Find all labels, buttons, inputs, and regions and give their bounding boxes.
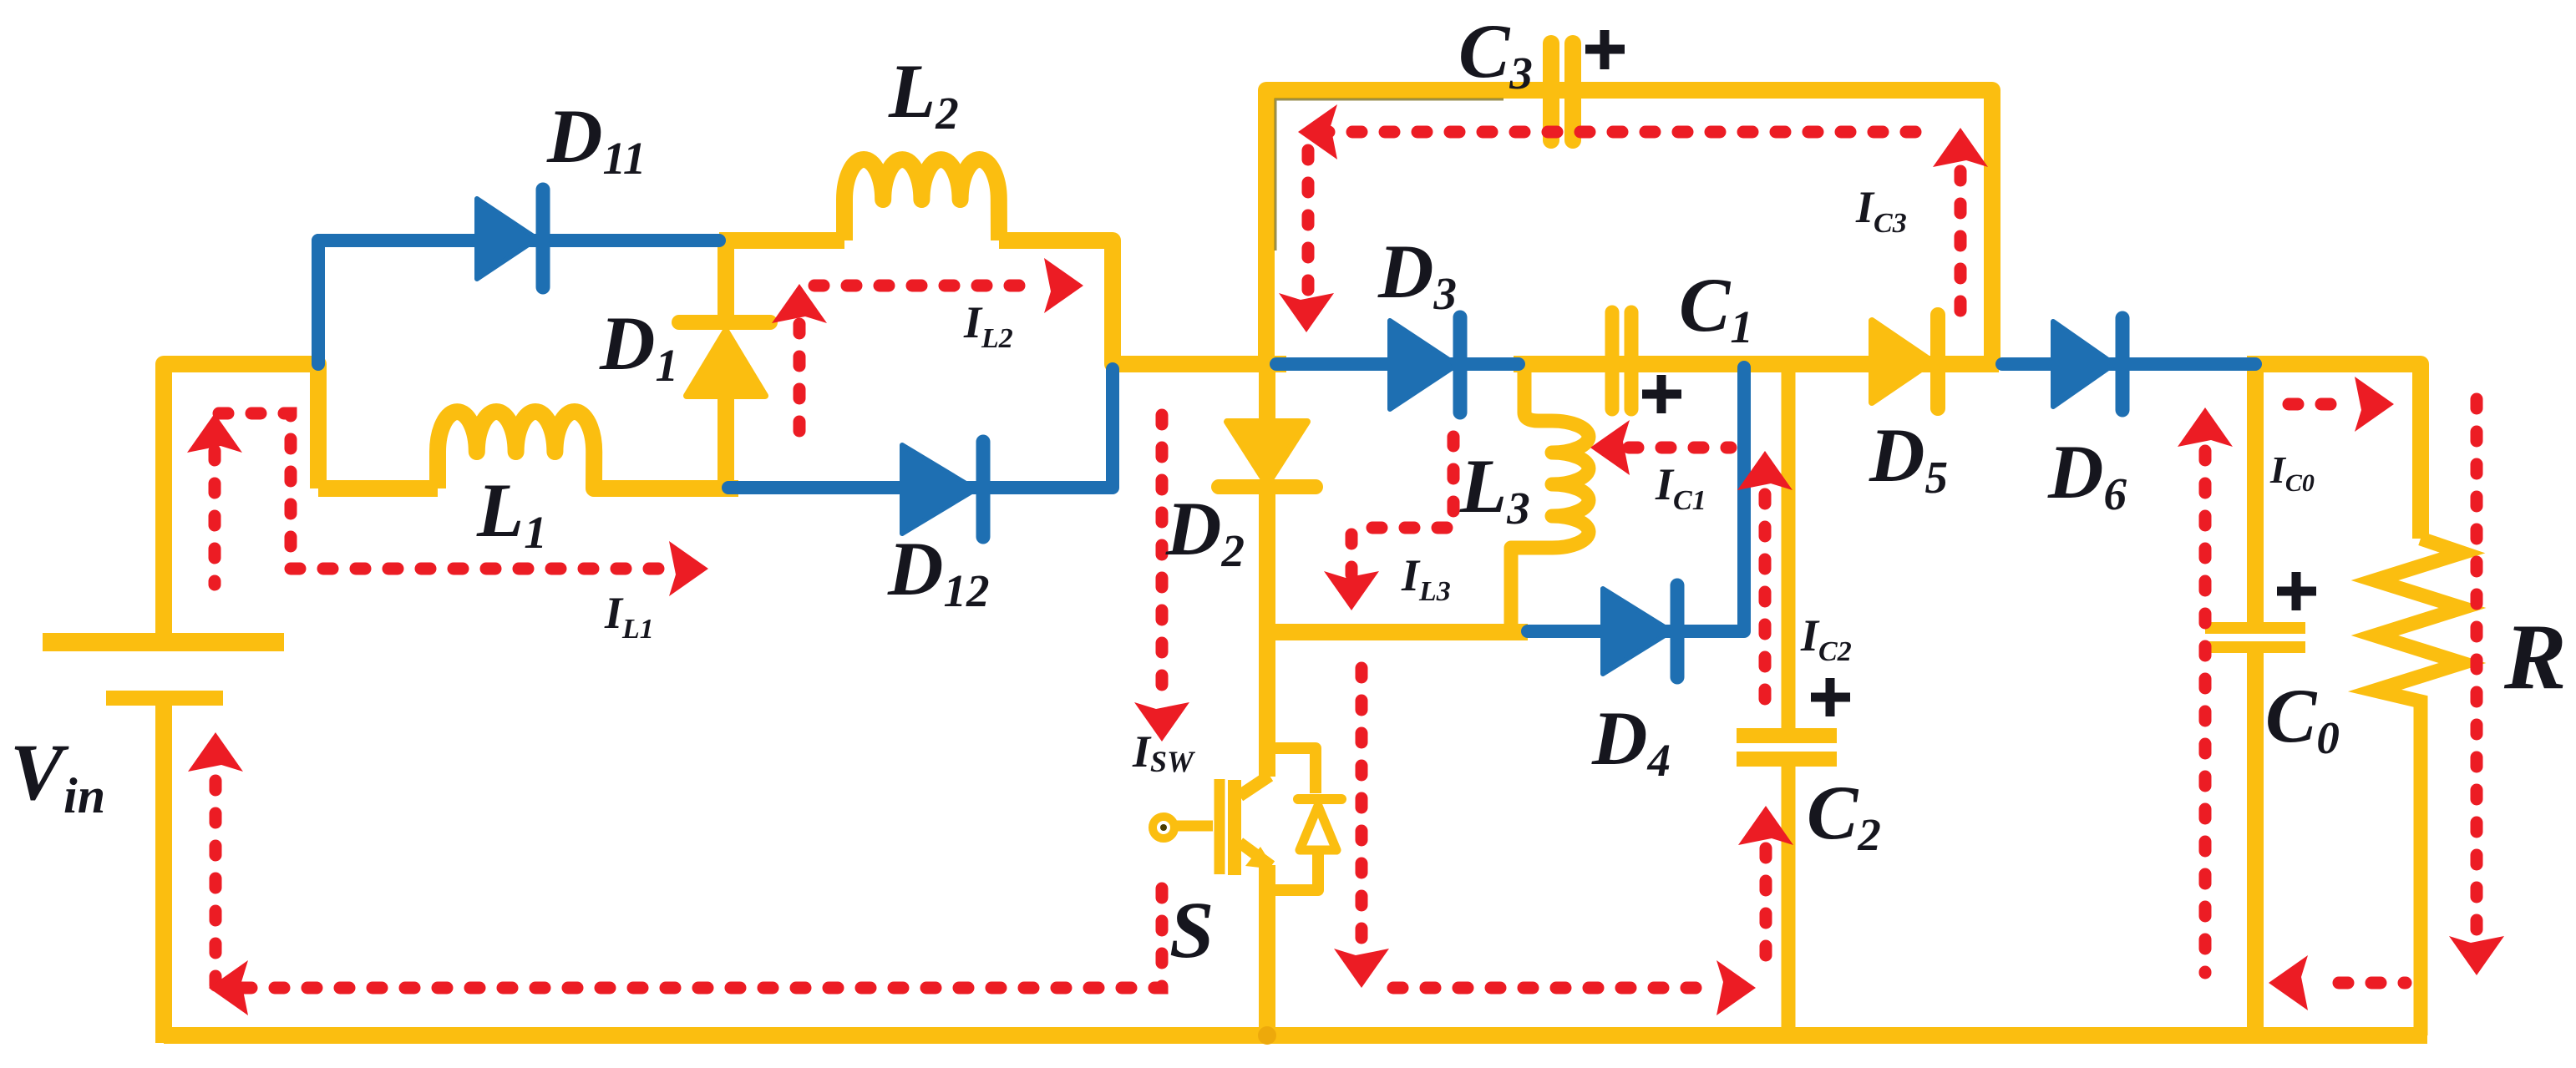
current R dashed [2471,399,2483,931]
diode D12 bar [976,442,991,537]
current Isw dashed upper [1156,415,1169,706]
wire output node [2247,364,2421,539]
current arrow battery top dashed [209,451,221,585]
diode D5 triangle [1872,321,1932,402]
diode D1 stem lower [718,392,734,488]
diode D3 line [1276,357,1519,371]
diode D11 triangle [477,199,537,279]
diode D6 bar [2116,318,2130,410]
diode D6 triangle [2053,321,2114,407]
wire L1 lead left [318,480,438,497]
capacitor C2 plate bottom [1737,752,1837,767]
current output top dashed [2289,398,2345,411]
current R down arrow head [2449,936,2504,975]
current Isw arrow head [1134,702,1189,742]
diode D5 bar [1930,315,1945,408]
current IL1 arrow head [669,541,708,596]
svg-text:R: R [2503,605,2567,709]
transistor S gate terminal circle [1153,817,1174,838]
current IL3 dashed [1351,437,1453,574]
current IL2 vertical dashed [794,324,806,451]
diode D12 triangle [902,445,976,534]
capacitor C1 bar right [1625,312,1639,409]
capacitor C0 plate bottom [2205,641,2305,653]
wire L2 right down to main line [999,240,1286,364]
svg-text:S: S [1169,885,1214,974]
diode D11 bar [536,190,550,287]
inductor L1 [438,412,738,488]
wire blue top-left vertical [312,240,325,364]
inductor L3 [1511,364,1589,632]
current bottom left dashed [242,887,1162,988]
current hook top dashed [219,413,291,569]
current IC3 up arrow head [1933,128,1988,167]
plus sign C0 [2277,572,2316,610]
current IL3 down arrow head [1324,571,1379,610]
wire C3 branch [1266,90,1992,364]
current IC2 right arrow head [1716,960,1756,1015]
current IC2 upper up arrow head [1737,451,1793,490]
transistor S freewheel diode bar [1298,794,1341,804]
hairline artifact inner corner C3 branch [1275,99,1504,251]
transistor S gate lead [1174,821,1213,832]
wire D2 to switch node [1267,494,1528,632]
transistor S body bar [1228,780,1241,875]
diode D12 line [728,369,1113,488]
current arrow battery lower dashed [210,781,222,985]
current IC1 dashed [1629,442,1731,454]
diode D4 bar [1671,585,1685,677]
current IC2 lower up arrow head [1738,806,1793,845]
current output bottom dashed [2339,977,2406,990]
current switch loop down arrow head [1334,949,1389,988]
diode D2 triangle [1227,422,1307,484]
wire C2 branch lower [1782,766,1796,1035]
wire bottom rail [164,1027,2427,1044]
current IC3 right leg dashed [1955,171,1967,321]
transistor S gate dot [1160,824,1167,831]
current IC3 left arrow head [1298,104,1337,159]
plus sign C1 [1642,375,1681,413]
transistor S freewheel diode triangle [1300,806,1336,850]
transistor S freewheel diode loop wire [1267,748,1318,890]
diode D4 triangle [1603,589,1671,674]
wire main line D3 to D5 [1514,356,1999,372]
current IC1 left arrow head [1590,420,1630,475]
transistor S collector stem [1259,632,1275,777]
diode D3 triangle [1390,321,1457,409]
transistor S emitter arrow [1245,847,1275,869]
junction dot S emitter [1258,1026,1276,1045]
transistor S gate bar [1214,779,1225,874]
current arrow battery top head [187,413,242,453]
current output top right arrow head [2355,377,2394,432]
diode D3 bar [1453,317,1468,413]
current IL2 horizontal dashed [814,280,1042,292]
diode D2 stem top [1259,364,1275,428]
current bottom left arrow head [209,960,248,1015]
current IC2 lower dashed [1760,848,1772,979]
transistor S emitter stem [1259,865,1275,1035]
transistor S collector diagonal [1240,776,1270,796]
current IC3 top dashed [1320,126,1938,139]
capacitor C0 plate top [2205,622,2305,634]
current switch loop dashed [1362,668,1714,988]
current IL2 right arrow head [1044,258,1083,313]
current IL2 up arrow head [772,284,827,323]
current IC2 upper dashed [1759,494,1772,706]
current IC3 left leg dashed [1302,150,1315,294]
capacitor C2 plate top [1737,728,1837,743]
inductor L2 [844,159,999,240]
battery Vin plate short [106,691,223,706]
diode D6 line [2002,357,2255,371]
transistor S emitter diagonal [1240,843,1271,866]
wire C0 branch lower [2247,652,2264,1035]
diode D4 line [1528,367,1744,631]
capacitor C3 bar right [1564,43,1581,140]
diode D2 bar [1219,479,1316,494]
current arrow battery lower head [188,732,243,772]
current IC0 dashed [2199,451,2212,973]
diode D11 line [318,234,719,247]
current IL1 dashed [291,563,667,575]
diode D1 triangle [687,331,765,396]
current IC0 up arrow head [2178,407,2233,447]
capacitor C1 bar left [1605,312,1620,409]
diode D1 stem upper [718,240,734,317]
wire battery bottom to bottom rail [155,703,172,1043]
current output bottom left arrow head [2269,955,2308,1010]
wire left top from battery to L1/D11 junction [164,364,318,636]
plus sign C2 [1811,678,1850,716]
diode D1 bar [679,315,770,330]
current IC3 down arrow head [1279,293,1334,332]
resistor R [2375,539,2462,1035]
wire top node to L2 [719,232,844,249]
plus sign C3 [1585,30,1625,69]
wire C2 branch upper [1782,364,1796,730]
wire C0 branch upper [2247,364,2264,624]
capacitor C3 bar left [1543,43,1559,140]
battery Vin plate long [43,633,284,651]
